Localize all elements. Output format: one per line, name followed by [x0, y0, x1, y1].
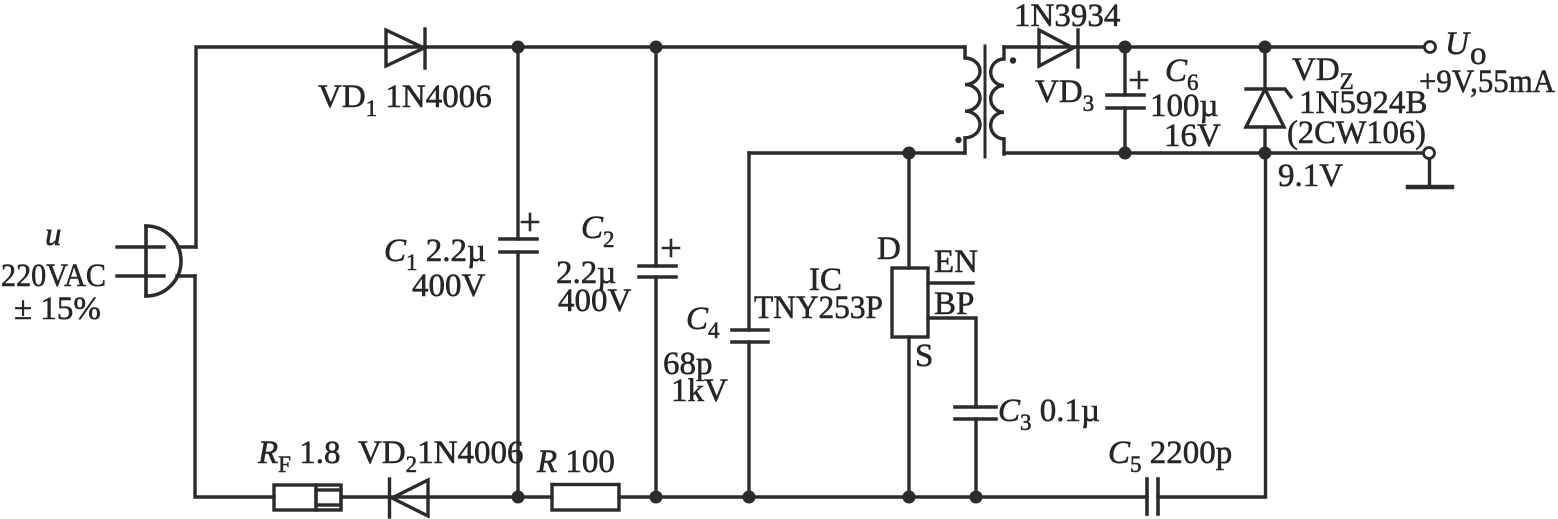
wire: C2 branch — [654, 47, 657, 266]
svg-text:C2: C2 — [581, 210, 615, 252]
wire: EN pin stub — [928, 281, 973, 284]
wire: D pin — [907, 153, 910, 268]
capacitor C5 — [1147, 479, 1158, 514]
node: drain junction — [903, 147, 916, 160]
op IC U1 TNY253P box — [892, 268, 928, 337]
wire: C3 bottom — [974, 419, 977, 497]
wire: C1 branch — [516, 47, 519, 239]
svg-text:RF 1.8: RF 1.8 — [257, 435, 340, 477]
capacitor C3 — [955, 407, 996, 419]
svg-text:(2CW106): (2CW106) — [1287, 115, 1426, 151]
svg-text:220VAC: 220VAC — [1, 258, 106, 294]
wire: BP pin to C3 — [928, 318, 976, 407]
ground — [1408, 159, 1452, 187]
svg-text:BP: BP — [934, 286, 974, 322]
transformer secondary winding — [991, 47, 1004, 154]
svg-text:EN: EN — [934, 244, 978, 280]
svg-text:+9V,55mA: +9V,55mA — [1419, 64, 1555, 100]
wire: AC top terminal up and top rail to transformer primary — [196, 47, 965, 247]
node: top rail junction C2 — [650, 41, 663, 54]
diode VD1 — [386, 29, 425, 68]
svg-text:VD21N4006: VD21N4006 — [358, 435, 524, 477]
wire: secondary top rail to output — [1004, 45, 1424, 48]
resistor RF (fusible) — [274, 485, 341, 510]
capacitor C1 — [500, 214, 538, 252]
output terminal Uo — [1425, 42, 1436, 53]
node: C6 bottom junction — [1119, 147, 1132, 160]
svg-text:C3 0.1µ: C3 0.1µ — [998, 393, 1100, 435]
svg-text:1kV: 1kV — [671, 373, 728, 409]
diode VD2 — [390, 479, 429, 517]
svg-text:TNY253P: TNY253P — [754, 290, 883, 326]
capacitor C2 — [639, 240, 679, 277]
diode VD3 — [1039, 30, 1078, 67]
wire: S pin — [907, 337, 910, 497]
wire: RF to VD2 — [341, 495, 552, 498]
node: bottom rail C3 junction — [970, 491, 983, 504]
AC source u (mains plug symbol) — [117, 226, 196, 296]
svg-text:VD3: VD3 — [1035, 74, 1094, 116]
ground terminal circle — [1424, 148, 1435, 159]
secondary polarity dot — [1010, 57, 1016, 63]
svg-text:D: D — [877, 231, 901, 267]
wire: 9.1V rail — [1004, 151, 1423, 154]
svg-text:VD1 1N4006: VD1 1N4006 — [318, 79, 492, 121]
wire: bottom rail R to C5 — [619, 495, 1147, 498]
svg-text:u: u — [45, 217, 62, 253]
node: bottom rail C1 junction — [512, 491, 525, 504]
node: VDz top junction — [1259, 41, 1272, 54]
node: bottom rail C2 junction — [650, 491, 663, 504]
primary polarity dot — [955, 137, 961, 143]
svg-text:S: S — [915, 338, 933, 374]
wire: C4 branch — [747, 153, 750, 330]
svg-text:± 15%: ± 15% — [14, 291, 101, 327]
svg-text:400V: 400V — [412, 268, 486, 304]
resistor R — [552, 485, 619, 511]
svg-text:C5 2200p: C5 2200p — [1108, 435, 1232, 477]
wire: AC bottom terminal down to bottom rail start — [195, 276, 274, 497]
svg-text:16V: 16V — [1164, 118, 1221, 154]
svg-text:1N3934: 1N3934 — [1014, 0, 1120, 34]
capacitor C6 — [1107, 72, 1147, 108]
svg-text:C4: C4 — [686, 301, 720, 343]
wire: C6 branch — [1123, 47, 1126, 95]
wire: C5 to bottom-right corner and up to 9.1V rail — [1158, 153, 1266, 497]
capacitor C4 — [732, 330, 768, 342]
transformer core — [984, 46, 987, 157]
svg-text:9.1V: 9.1V — [1278, 158, 1343, 194]
node: bottom rail S junction — [903, 491, 916, 504]
svg-text:R 100: R 100 — [536, 444, 615, 480]
node: VDz bottom junction — [1259, 147, 1272, 160]
wire: drain node horizontal — [749, 151, 965, 154]
node: C6 top junction — [1119, 41, 1132, 54]
svg-text:U: U — [1445, 26, 1471, 62]
svg-text:400V: 400V — [558, 283, 632, 319]
transformer T1 primary winding — [965, 47, 980, 153]
node: top rail junction C1 — [512, 41, 525, 54]
node: bottom rail C4 junction — [743, 491, 756, 504]
zener diode VDz — [1246, 47, 1291, 153]
